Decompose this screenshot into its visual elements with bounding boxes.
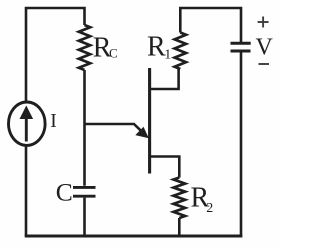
wire R1 top up and top-right rail to V source [180, 8, 241, 42]
wire emitter lead to R2 top [150, 157, 180, 178]
current source arrow shaft [25, 113, 28, 142]
transistor Q1 bar [148, 68, 151, 174]
svg-text:2: 2 [206, 201, 213, 216]
svg-text:I: I [50, 110, 57, 132]
label R2 [191, 183, 214, 217]
current source arrowhead [20, 106, 34, 120]
source V top plate [231, 42, 251, 45]
wire bottom rail [25, 235, 243, 238]
wire collector lead to R1 bottom [150, 69, 179, 89]
resistor R1 zigzag [175, 33, 186, 70]
capacitor C bottom plate [73, 195, 96, 198]
resistor R2 zigzag [174, 178, 186, 219]
source V bottom plate [231, 50, 251, 53]
svg-text:1: 1 [164, 48, 171, 63]
capacitor C top plate [73, 186, 96, 189]
wire capacitor C bottom to bottom rail [83, 198, 86, 236]
svg-text:V: V [256, 35, 274, 61]
wire V source bottom to bottom rail [240, 53, 243, 237]
wire R2 bottom to bottom rail [178, 218, 181, 236]
plus sign [258, 17, 269, 28]
label RC [93, 33, 118, 64]
wire base lead from left column to transistor [85, 124, 147, 136]
current source I (circle) [9, 102, 46, 145]
wire top-left rail from left rail to RC top [26, 8, 85, 103]
svg-text:C: C [109, 46, 118, 61]
minus sign [259, 63, 270, 65]
svg-text:C: C [56, 177, 73, 206]
label R1 [147, 32, 171, 63]
base arrowhead into transistor bar [135, 127, 149, 138]
wire RC bottom down to capacitor C [83, 70, 86, 186]
svg-text:R: R [147, 32, 166, 63]
wire left rail below current source to bottom rail [25, 145, 28, 237]
resistor RC zigzag [79, 25, 90, 70]
